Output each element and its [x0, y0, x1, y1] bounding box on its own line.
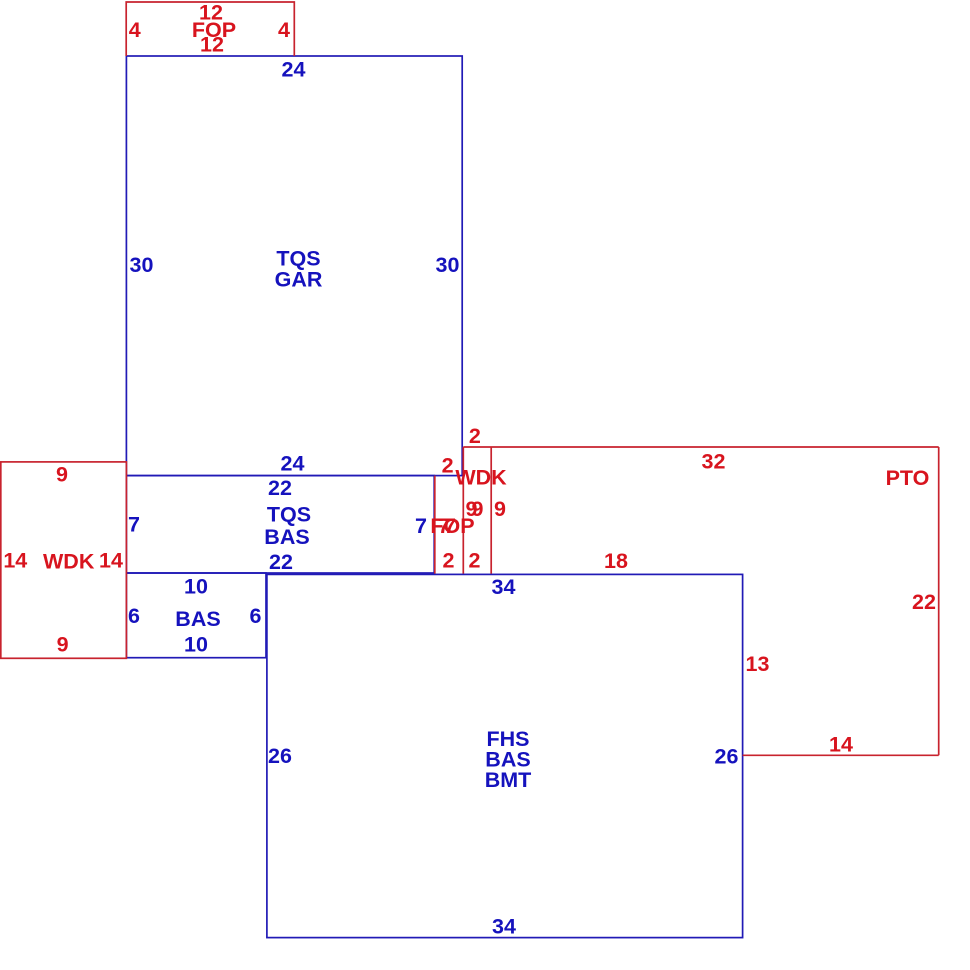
svg-text:4: 4 — [129, 18, 141, 42]
svg-text:14: 14 — [99, 549, 123, 573]
svg-text:14: 14 — [3, 549, 27, 573]
svg-text:10: 10 — [184, 575, 208, 599]
svg-text:WDK: WDK — [43, 550, 95, 574]
svg-text:9: 9 — [494, 497, 506, 521]
area BAS rectangle — [126, 573, 266, 658]
svg-text:PTO: PTO — [886, 466, 930, 490]
svg-text:22: 22 — [912, 590, 936, 614]
wire PTO bottom edge — [743, 754, 939, 756]
svg-text:34: 34 — [492, 575, 516, 599]
wire PTO top edge — [463, 446, 938, 448]
svg-text:TQS: TQS — [267, 502, 311, 526]
svg-text:14: 14 — [829, 733, 853, 757]
svg-text:24: 24 — [281, 452, 305, 476]
svg-text:2: 2 — [442, 454, 454, 478]
svg-text:26: 26 — [715, 745, 739, 769]
svg-text:BAS: BAS — [264, 525, 309, 549]
svg-text:BAS: BAS — [175, 607, 220, 631]
svg-text:30: 30 — [130, 253, 154, 277]
area FOP (top porch) outline — [126, 2, 294, 56]
svg-text:6: 6 — [250, 604, 262, 628]
area GAR rectangle — [126, 56, 462, 476]
svg-text:13: 13 — [746, 652, 770, 676]
svg-text:FOP: FOP — [430, 514, 474, 538]
svg-text:34: 34 — [492, 915, 516, 939]
area FHS BAS BMT rectangle — [267, 574, 743, 937]
svg-text:24: 24 — [282, 57, 306, 81]
svg-text:2: 2 — [469, 424, 481, 448]
svg-text:10: 10 — [184, 633, 208, 657]
svg-text:18: 18 — [604, 549, 628, 573]
svg-text:7: 7 — [415, 514, 427, 538]
svg-text:22: 22 — [269, 550, 293, 574]
svg-text:32: 32 — [702, 450, 726, 474]
area WDK (left deck) rectangle — [1, 462, 127, 658]
wire FOP strip left edge — [434, 476, 436, 574]
svg-text:22: 22 — [268, 476, 292, 500]
area TQS BAS rectangle — [126, 476, 434, 573]
wire WDK strip right edge — [490, 447, 492, 574]
svg-text:9: 9 — [57, 633, 69, 657]
wire PTO right edge — [938, 447, 940, 755]
svg-text:WDK: WDK — [455, 466, 507, 490]
svg-text:6: 6 — [128, 604, 140, 628]
svg-text:12: 12 — [200, 33, 224, 57]
svg-text:26: 26 — [268, 744, 292, 768]
svg-text:BMT: BMT — [485, 768, 532, 792]
svg-text:GAR: GAR — [275, 268, 323, 292]
svg-text:2: 2 — [469, 549, 481, 573]
svg-text:2: 2 — [443, 549, 455, 573]
svg-text:7: 7 — [128, 513, 140, 537]
svg-text:9: 9 — [56, 463, 68, 487]
svg-text:30: 30 — [436, 253, 460, 277]
svg-text:4: 4 — [278, 18, 290, 42]
wire WDK strip left edge — [462, 447, 464, 574]
